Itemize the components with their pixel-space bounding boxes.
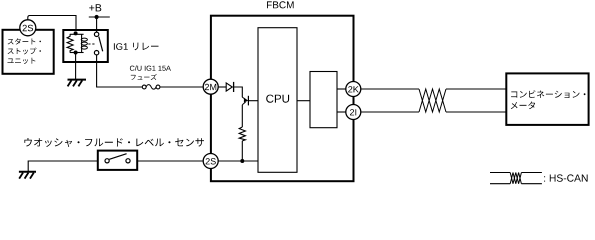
wire +B to relay switch bbox=[96, 17, 98, 32]
label IG1 relay bbox=[114, 43, 159, 51]
wire 2S to CPU bbox=[218, 160, 258, 162]
wire from connector 2S of unit up and right into relay coil bbox=[28, 16, 76, 35]
start-stop unit box bbox=[3, 30, 54, 74]
arrow into CPU input bar bbox=[242, 96, 258, 106]
twisted pair crossing bbox=[419, 89, 446, 112]
wire block to 2I bbox=[337, 111, 346, 113]
wire block to 2K bbox=[337, 88, 346, 90]
relay switch blade bbox=[99, 37, 103, 52]
wire sensor switch to ground corner bbox=[28, 161, 98, 171]
connector 2S (start-stop unit) bbox=[20, 20, 36, 36]
label start-stop unit text line1 bbox=[8, 38, 41, 44]
label HS-CAN bbox=[544, 174, 588, 181]
node: resistor joins 2S wire bbox=[240, 159, 244, 163]
fuse C/U IG1 15A bbox=[142, 85, 160, 90]
dashed mechanical link of relay bbox=[88, 43, 95, 45]
relay box IG1 bbox=[63, 30, 108, 62]
resistor (relay coil parallel resistor) bbox=[67, 34, 73, 52]
relay coil bottom bar wire bbox=[70, 52, 84, 54]
label combination meter line1 bbox=[511, 90, 585, 98]
label start-stop unit text line3 bbox=[8, 58, 36, 64]
label fuse katakana bbox=[131, 74, 157, 80]
power +B symbol bbox=[89, 4, 110, 19]
wire relay switch to fuse bbox=[97, 55, 143, 87]
connector 2K bbox=[346, 82, 361, 97]
connector 2I bbox=[346, 105, 361, 120]
ground (washer sensor) bbox=[19, 172, 36, 179]
label washer fluid level sensor bbox=[24, 138, 204, 147]
FBCM box bbox=[211, 16, 354, 182]
relay switch bottom contact bbox=[94, 51, 98, 55]
connector block bbox=[310, 72, 337, 128]
connector 2S (FBCM) bbox=[203, 154, 218, 169]
legend twisted pair symbol bbox=[490, 173, 542, 184]
wire CPU to connector block bbox=[297, 100, 310, 102]
washer sensor switch box bbox=[98, 151, 137, 170]
node: relay coil bottom junction bbox=[74, 51, 78, 55]
wire switch to connector 2S of FBCM bbox=[137, 160, 203, 162]
wire twisted pair to meter (CAN L) bbox=[446, 111, 506, 113]
wire fuse to connector 2M bbox=[160, 86, 203, 88]
combination meter box bbox=[506, 73, 588, 125]
label fuse: C/U IG1 15A bbox=[130, 65, 171, 70]
CPU box bbox=[258, 28, 297, 173]
wire 2M to diode bbox=[218, 86, 226, 88]
switch blade bbox=[109, 154, 126, 160]
label FBCM bbox=[267, 1, 294, 8]
diode bbox=[226, 82, 233, 92]
wire resistor to 2S node bbox=[241, 141, 243, 161]
wire twisted pair to meter (CAN H) bbox=[446, 88, 506, 90]
wire 2K to twisted pair bbox=[361, 88, 420, 90]
relay switch top contact bbox=[94, 32, 98, 36]
switch right contact bbox=[126, 159, 130, 163]
wire diode to node, down bbox=[234, 87, 243, 97]
label combination meter line2 bbox=[511, 102, 535, 110]
switch left contact bbox=[105, 159, 109, 163]
inductor relay coil bbox=[81, 34, 83, 52]
wire relay coil to ground bbox=[75, 53, 77, 80]
connector 2M bbox=[203, 79, 218, 94]
resistor (FBCM pull-down) bbox=[239, 127, 245, 141]
node: relay coil top junction bbox=[74, 31, 78, 35]
label start-stop unit text line2 bbox=[8, 48, 41, 55]
relay coil top bar wire bbox=[70, 33, 84, 35]
ground (relay coil) bbox=[68, 80, 87, 87]
label CPU bbox=[266, 95, 289, 103]
wire 2I to twisted pair bbox=[361, 111, 420, 113]
wire down to resistor bbox=[241, 105, 243, 127]
